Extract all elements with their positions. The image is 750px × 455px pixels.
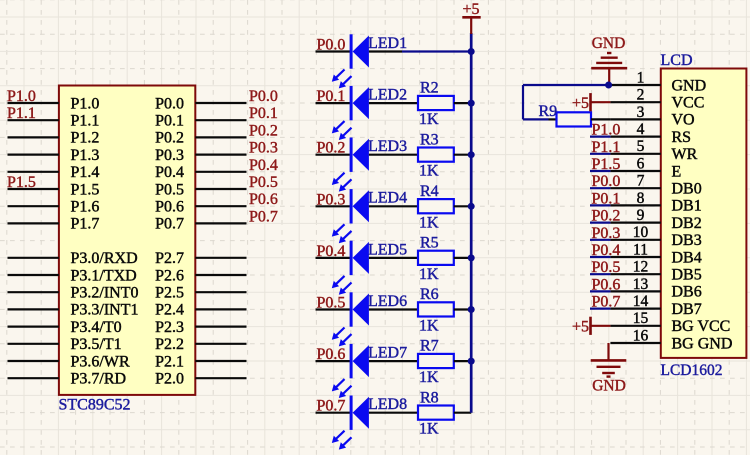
svg-text:P2.0: P2.0 [155, 371, 184, 388]
svg-text:P0.7: P0.7 [249, 208, 278, 225]
ground GND (bottom, LCD pin 16) [591, 343, 627, 395]
svg-text:P0.6: P0.6 [592, 276, 621, 293]
svg-text:+5: +5 [462, 1, 479, 18]
svg-text:13: 13 [633, 276, 649, 293]
svg-text:DB6: DB6 [672, 284, 702, 301]
U1 pin P1.2 [8, 130, 100, 147]
label LED3 [368, 138, 407, 155]
U1 pin P2.1 [155, 353, 246, 370]
label R4 [420, 183, 439, 200]
svg-text:1K: 1K [419, 369, 439, 386]
U1 pin P3.4/T0 [8, 319, 122, 336]
svg-text:R5: R5 [420, 235, 439, 252]
svg-text:P0.3: P0.3 [592, 225, 621, 242]
svg-text:P0.3: P0.3 [155, 147, 184, 164]
U1 pin P1.0 [8, 95, 100, 112]
svg-text:P3.7/RD: P3.7/RD [71, 371, 127, 388]
svg-text:P0.0: P0.0 [592, 173, 621, 190]
label R5 [420, 235, 439, 252]
svg-text:LCD1602: LCD1602 [661, 362, 723, 379]
ground GND (top, LCD pin 1) [591, 35, 627, 85]
svg-text:DB1: DB1 [672, 198, 702, 215]
svg-text:P3.2/INT0: P3.2/INT0 [71, 285, 139, 302]
label R2 [420, 80, 439, 97]
label LED6 [368, 293, 407, 310]
svg-text:LED3: LED3 [368, 138, 407, 155]
net label P0.1 [317, 88, 346, 105]
wire LCD pin1 to R9 loop [523, 85, 609, 119]
svg-text:P1.1: P1.1 [592, 139, 621, 156]
resistor R5 [402, 251, 471, 265]
wire to LED5 anode [316, 257, 351, 259]
svg-text:P1.1: P1.1 [71, 113, 100, 130]
U2 designator LCD [661, 52, 693, 69]
svg-text:8: 8 [637, 190, 645, 207]
svg-text:7: 7 [637, 173, 645, 190]
U1 pin P0.7 [155, 216, 246, 233]
wire to LED8 anode [316, 412, 351, 414]
U1 pin P1.7 [8, 216, 100, 233]
label LED8 [368, 396, 407, 413]
label R9 [539, 103, 558, 120]
svg-text:14: 14 [633, 293, 649, 310]
svg-text:P0.5: P0.5 [155, 181, 184, 198]
U1 pin P2.2 [155, 336, 246, 353]
net label P1.1 on LCD pin 5 [590, 139, 620, 156]
resistor R2 [402, 96, 471, 110]
net label P0.4 [317, 243, 346, 260]
svg-text:DB4: DB4 [672, 249, 702, 266]
svg-text:P1.3: P1.3 [71, 147, 100, 164]
label LED1 [368, 35, 407, 52]
svg-text:P0.1: P0.1 [155, 113, 184, 130]
svg-text:P1.5: P1.5 [7, 174, 36, 191]
U2 pin 11 DB4 [610, 241, 701, 266]
svg-text:15: 15 [633, 310, 649, 327]
diode LED8 [350, 396, 402, 430]
svg-text:10: 10 [633, 224, 649, 241]
U1 pin P0.1 [155, 113, 246, 130]
svg-text:P2.5: P2.5 [155, 285, 184, 302]
svg-text:LED4: LED4 [368, 190, 407, 207]
value 1K of R4 [419, 214, 439, 231]
svg-text:3: 3 [637, 104, 645, 121]
label R3 [420, 131, 439, 148]
net label P0.7 [249, 208, 278, 225]
svg-text:BG VCC: BG VCC [672, 318, 731, 335]
svg-text:P3.6/WR: P3.6/WR [71, 353, 130, 370]
svg-text:P0.2: P0.2 [592, 208, 621, 225]
wire to LED4 anode [316, 205, 351, 207]
svg-text:11: 11 [633, 241, 648, 258]
diode LED3 [350, 138, 402, 172]
svg-text:P2.6: P2.6 [155, 267, 184, 284]
U2 pin 6 E [610, 155, 681, 180]
svg-text:P0.2: P0.2 [249, 122, 278, 139]
svg-text:1K: 1K [419, 163, 439, 180]
svg-text:4: 4 [637, 121, 645, 138]
svg-text:P2.3: P2.3 [155, 319, 184, 336]
svg-text:LED5: LED5 [368, 241, 407, 258]
value 1K of R6 [419, 318, 439, 335]
svg-text:P0.4: P0.4 [249, 157, 278, 174]
svg-text:P0.4: P0.4 [155, 164, 184, 181]
diode LED4 [350, 189, 402, 223]
svg-text:P0.1: P0.1 [592, 190, 621, 207]
svg-text:P2.2: P2.2 [155, 336, 184, 353]
net label P0.1 [249, 105, 278, 122]
wire to LED6 anode [316, 308, 351, 310]
value 1K of R8 [419, 421, 439, 438]
net label P0.2 on LCD pin 9 [590, 208, 620, 225]
U1 designator STC89C52 [59, 397, 131, 414]
svg-text:DB3: DB3 [672, 232, 702, 249]
U1 pin P0.3 [155, 147, 246, 164]
svg-text:1K: 1K [419, 111, 439, 128]
value 1K of R2 [419, 111, 439, 128]
svg-text:9: 9 [637, 207, 645, 224]
svg-text:P3.5/T1: P3.5/T1 [71, 336, 122, 353]
svg-text:1K: 1K [419, 421, 439, 438]
wire to LED7 anode [316, 360, 351, 362]
U1 pin P2.7 [155, 250, 246, 267]
U2 pin 7 DB0 [610, 173, 701, 198]
junction on +5 bus row 2 [468, 100, 475, 107]
wire LED1 to +5 bus [402, 50, 471, 52]
diode LED6 [350, 292, 402, 326]
U1 pin P1.1 [8, 113, 100, 130]
svg-text:STC89C52: STC89C52 [59, 397, 131, 414]
U2 pin 13 DB6 [610, 276, 701, 301]
net label P0.6 [317, 346, 346, 363]
svg-text:GND: GND [672, 77, 707, 94]
svg-text:P3.1/TXD: P3.1/TXD [71, 267, 137, 284]
svg-text:P1.4: P1.4 [71, 164, 100, 181]
U1 pin P3.1/TXD [8, 267, 137, 284]
net label P0.6 [249, 191, 278, 208]
label LED2 [368, 87, 407, 104]
junction at LCD pin 1 [605, 82, 612, 89]
svg-text:P2.7: P2.7 [155, 250, 184, 267]
resistor R6 [402, 302, 471, 316]
U2 pin 5 WR [610, 138, 697, 163]
svg-text:P2.1: P2.1 [155, 353, 184, 370]
U2 pin 10 DB3 [610, 224, 701, 249]
net label P0.2 [317, 140, 346, 157]
U1 pin P0.5 [155, 181, 246, 198]
LED7 emission arrows [332, 379, 352, 398]
diode LED2 [350, 86, 402, 120]
LED4 emission arrows [332, 224, 352, 243]
svg-text:LED2: LED2 [368, 87, 407, 104]
U2 pin 2 VCC [610, 87, 704, 112]
U1 pin P3.6/WR [8, 353, 130, 370]
LED6 emission arrows [332, 328, 352, 347]
svg-text:12: 12 [633, 259, 649, 276]
svg-text:P0.4: P0.4 [592, 242, 621, 259]
wire to LED3 anode [316, 154, 351, 156]
wire to LED1 anode [316, 50, 351, 52]
svg-text:P1.1: P1.1 [7, 105, 36, 122]
net label P0.3 [249, 140, 278, 157]
svg-text:RS: RS [672, 129, 692, 146]
label R7 [420, 338, 439, 355]
U1 pin P2.0 [155, 371, 246, 388]
svg-text:P1.0: P1.0 [592, 122, 621, 139]
svg-text:1K: 1K [419, 318, 439, 335]
U1 pin P3.2/INT0 [8, 285, 139, 302]
svg-text:P1.7: P1.7 [71, 216, 100, 233]
junction on +5 bus row 4 [468, 203, 475, 210]
svg-text:P0.1: P0.1 [249, 105, 278, 122]
svg-text:R9: R9 [539, 103, 558, 120]
svg-text:P0.7: P0.7 [155, 216, 184, 233]
diode LED7 [350, 344, 402, 378]
U2 pin 4 RS [610, 121, 691, 146]
U2 pin 9 DB2 [610, 207, 701, 232]
svg-text:LCD: LCD [661, 52, 693, 69]
net label P1.0 on LCD pin 4 [590, 122, 620, 139]
svg-text:LED8: LED8 [368, 396, 407, 413]
svg-text:P1.0: P1.0 [71, 95, 100, 112]
svg-text:GND: GND [592, 378, 626, 395]
junction on +5 bus row 6 [468, 306, 475, 313]
svg-text:P0.6: P0.6 [155, 199, 184, 216]
U2 pin 16 BG GND [610, 327, 732, 352]
label R6 [420, 286, 439, 303]
U1 pin P2.5 [155, 285, 246, 302]
U1 pin P1.6 [8, 199, 100, 216]
svg-text:DB7: DB7 [672, 301, 702, 318]
svg-text:R6: R6 [420, 286, 439, 303]
resistor R9 [549, 112, 611, 126]
net label P0.1 on LCD pin 8 [590, 190, 620, 207]
svg-text:GND: GND [592, 35, 626, 52]
svg-text:R2: R2 [420, 80, 439, 97]
svg-text:P0.2: P0.2 [155, 130, 184, 147]
svg-text:P0.7: P0.7 [592, 294, 621, 311]
svg-text:DB2: DB2 [672, 215, 702, 232]
net label P0.5 [317, 295, 346, 312]
svg-text:WR: WR [672, 146, 698, 163]
svg-text:P0.6: P0.6 [249, 191, 278, 208]
label LED5 [368, 241, 407, 258]
svg-text:LED6: LED6 [368, 293, 407, 310]
value 1K of R3 [419, 163, 439, 180]
net label P0.7 on LCD pin 14 [590, 294, 620, 311]
LED3 emission arrows [332, 173, 352, 192]
U1 pin P0.4 [155, 164, 246, 181]
svg-text:P0.5: P0.5 [592, 259, 621, 276]
net label P0.3 [317, 191, 346, 208]
svg-text:P0.0: P0.0 [155, 95, 184, 112]
U2 pin 12 DB5 [610, 259, 701, 284]
wire to LED2 anode [316, 102, 351, 104]
resistor R7 [402, 354, 471, 368]
svg-text:R7: R7 [420, 338, 439, 355]
U1 pin P2.4 [155, 302, 246, 319]
svg-text:5: 5 [637, 138, 645, 155]
U1 pin P3.7/RD [8, 371, 127, 388]
U1 pin P1.5 [8, 181, 100, 198]
U1 pin P3.5/T1 [8, 336, 122, 353]
U1 pin P3.3/INT1 [8, 302, 139, 319]
diode LED5 [350, 241, 402, 275]
svg-text:2: 2 [637, 87, 645, 104]
svg-text:VCC: VCC [672, 95, 705, 112]
svg-text:P3.0/RXD: P3.0/RXD [71, 250, 138, 267]
IC U1 STC89C52 body [59, 86, 195, 395]
power +5 (top of bus) [462, 1, 480, 34]
svg-text:LED7: LED7 [368, 345, 407, 362]
value 1K of R7 [419, 369, 439, 386]
svg-text:P3.4/T0: P3.4/T0 [71, 319, 122, 336]
U2 pin 3 VO [610, 104, 694, 129]
LED1 emission arrows [332, 70, 352, 89]
U2 part name LCD1602 [661, 362, 723, 379]
net label P1.0 [7, 88, 36, 105]
svg-text:1: 1 [637, 69, 645, 86]
svg-text:P0.0: P0.0 [249, 88, 278, 105]
svg-text:+5: +5 [572, 319, 589, 336]
svg-text:+5: +5 [572, 95, 589, 112]
net label P0.5 [249, 174, 278, 191]
svg-text:6: 6 [637, 155, 645, 172]
svg-text:16: 16 [633, 327, 649, 344]
U2 pin 15 BG VCC [610, 310, 730, 335]
svg-text:P1.5: P1.5 [71, 181, 100, 198]
net label P0.4 on LCD pin 11 [590, 242, 620, 259]
svg-text:P0.5: P0.5 [249, 174, 278, 191]
svg-text:P1.6: P1.6 [71, 199, 100, 216]
svg-text:BG GND: BG GND [672, 335, 733, 352]
net label P0.5 on LCD pin 12 [590, 259, 620, 276]
svg-text:DB5: DB5 [672, 267, 702, 284]
svg-text:E: E [672, 163, 682, 180]
junction on +5 bus row 7 [468, 358, 475, 365]
U1 pin P2.3 [155, 319, 246, 336]
LED5 emission arrows [332, 276, 352, 295]
svg-text:1K: 1K [419, 266, 439, 283]
label LED7 [368, 345, 407, 362]
junction on +5 bus row 5 [468, 254, 475, 261]
svg-text:P0.3: P0.3 [249, 140, 278, 157]
value 1K of R5 [419, 266, 439, 283]
U1 pin P3.0/RXD [8, 250, 138, 267]
net label P0.4 [249, 157, 278, 174]
label LED4 [368, 190, 407, 207]
U2 pin 14 DB7 [610, 293, 701, 318]
resistor R4 [402, 199, 471, 213]
svg-text:P1.0: P1.0 [7, 88, 36, 105]
svg-text:R4: R4 [420, 183, 439, 200]
U1 pin P0.6 [155, 199, 246, 216]
resistor R8 [402, 406, 471, 420]
resistor R3 [402, 148, 471, 162]
IC U2 LCD body [661, 69, 747, 358]
net label P0.6 on LCD pin 13 [590, 276, 620, 293]
svg-text:1K: 1K [419, 214, 439, 231]
label R8 [420, 389, 439, 406]
svg-text:P1.2: P1.2 [71, 130, 100, 147]
svg-text:DB0: DB0 [672, 181, 702, 198]
wire +5 vertical bus [470, 33, 473, 413]
net label P0.2 [249, 122, 278, 139]
svg-text:R8: R8 [420, 389, 439, 406]
net label P0.0 on LCD pin 7 [590, 173, 620, 190]
U1 pin P1.4 [8, 164, 100, 181]
net label P1.5 on LCD pin 6 [590, 156, 620, 173]
power +5 (LCD pin 2) [572, 93, 610, 112]
svg-text:VO: VO [672, 112, 695, 129]
U2 pin 8 DB1 [610, 190, 701, 215]
LED2 emission arrows [332, 121, 352, 140]
svg-text:P3.3/INT1: P3.3/INT1 [71, 302, 139, 319]
net label P1.5 [7, 174, 36, 191]
net label P0.0 [317, 37, 346, 54]
net label P0.7 [317, 398, 346, 415]
net label P1.1 [7, 105, 36, 122]
U1 pin P0.2 [155, 130, 246, 147]
svg-text:R3: R3 [420, 131, 439, 148]
svg-text:P1.5: P1.5 [592, 156, 621, 173]
net label P0.3 on LCD pin 10 [590, 225, 620, 242]
power +5 (LCD pin 15) [572, 317, 610, 336]
U1 pin P0.0 [155, 95, 246, 112]
U2 pin 1 GND [610, 69, 706, 94]
U1 pin P2.6 [155, 267, 246, 284]
svg-text:P2.4: P2.4 [155, 302, 184, 319]
net label P0.0 [249, 88, 278, 105]
LED8 emission arrows [332, 431, 352, 450]
junction on +5 bus row 3 [468, 151, 475, 158]
U1 pin P1.3 [8, 147, 100, 164]
svg-text:LED1: LED1 [368, 35, 407, 52]
diode LED1 [350, 34, 402, 68]
junction on +5 bus row 1 [468, 48, 475, 55]
